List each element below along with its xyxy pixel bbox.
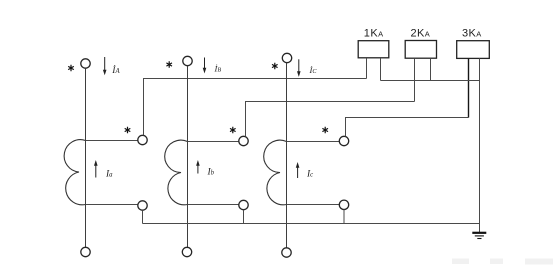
current arrow IC [297, 59, 301, 77]
wire TAc secondary top lead [287, 141, 340, 143]
wire TAa secondary top lead [86, 140, 138, 142]
wire phase A primary [85, 68, 87, 247]
node B primary bottom terminal [182, 247, 191, 256]
wire TAc secondary bottom lead [287, 204, 340, 206]
svg-text:Ia: Ia [105, 170, 113, 180]
wire a1 to relay 1KA [144, 79, 367, 136]
wire c2 to return [343, 210, 345, 224]
transformer TAb secondary winding [165, 140, 188, 205]
polarity mark phase C primary [272, 63, 278, 69]
current arrow IB [203, 58, 207, 74]
current arrow Ic [296, 162, 300, 178]
wire relay common [381, 80, 480, 82]
node a1 secondary top terminal [138, 135, 147, 144]
svg-text:İC: İC [309, 65, 318, 75]
node b1 secondary top terminal [239, 136, 248, 145]
wire b2 to return [243, 210, 245, 224]
label 3KA [462, 28, 482, 40]
wire TAb secondary top lead [188, 141, 240, 143]
wire relay 3KA pin1 [468, 58, 470, 117]
svg-text:İA: İA [111, 64, 120, 76]
svg-text:İB: İB [214, 64, 222, 74]
polarity mark TAa secondary [125, 127, 131, 133]
label Ic [306, 170, 313, 180]
wire relay 1KA pin2 [380, 58, 382, 81]
polarity mark phase B primary [166, 61, 172, 67]
polarity mark phase A primary [68, 65, 74, 71]
current arrow IA [103, 57, 107, 75]
relay 2KA [405, 41, 436, 59]
wire phase C primary [286, 63, 288, 248]
polarity mark TAc secondary [322, 127, 328, 133]
ground [472, 233, 486, 239]
node A primary bottom terminal [81, 247, 90, 256]
current arrow Ib [196, 160, 200, 174]
wire b1 to relay 2KA [246, 102, 415, 137]
node C primary top terminal [282, 53, 291, 62]
node c2 secondary bottom terminal [339, 200, 348, 209]
label 1KA [364, 28, 384, 40]
wire TAb secondary bottom lead [188, 204, 239, 206]
wire relay 2KA pin2 [430, 58, 432, 80]
relay 3KA [457, 41, 490, 59]
wire relay 2KA pin1 [414, 58, 416, 101]
node C primary bottom terminal [282, 248, 291, 257]
label IA [111, 64, 120, 76]
wire relay 3KA pin2 to ground [479, 58, 481, 233]
wire c1 to relay 3KA [346, 118, 469, 137]
wire relay 1KA pin1 [366, 58, 368, 79]
relay 1KA [358, 41, 389, 58]
svg-text:Ib: Ib [207, 168, 215, 178]
node A primary top terminal [81, 59, 90, 68]
svg-text:Ic: Ic [306, 170, 313, 180]
wire a2 to return [142, 210, 144, 223]
wire phase B primary [187, 66, 189, 248]
svg-text:1KA: 1KA [364, 28, 384, 40]
wire TAa secondary bottom lead [86, 204, 139, 206]
node b2 secondary bottom terminal [239, 200, 248, 209]
watermark [452, 259, 553, 265]
polarity mark TAb secondary [230, 127, 236, 133]
label 2KA [411, 28, 431, 40]
label IB [214, 64, 222, 74]
transformer TAa secondary winding [64, 140, 85, 205]
node a2 secondary bottom terminal [138, 201, 147, 210]
node B primary top terminal [183, 56, 192, 65]
current arrow Ia [94, 160, 98, 178]
label Ia [105, 170, 113, 180]
label IC [309, 65, 318, 75]
svg-text:2KA: 2KA [411, 28, 431, 40]
label Ib [207, 168, 215, 178]
node c1 secondary top terminal [339, 136, 348, 145]
svg-text:3KA: 3KA [462, 28, 482, 40]
transformer TAc secondary winding [264, 140, 287, 205]
wire secondary return [143, 223, 480, 225]
